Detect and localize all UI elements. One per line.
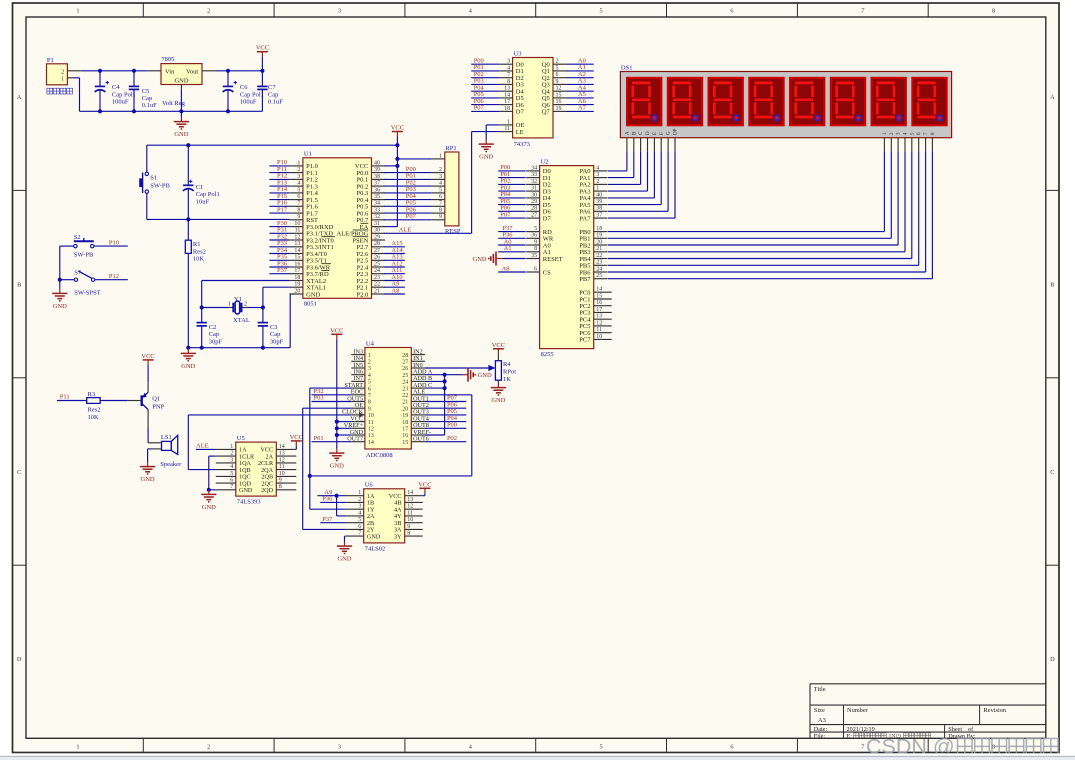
- wire reset node to RST pin: [147, 218, 290, 220]
- net label P05 wire U1 to RP1: [384, 200, 431, 207]
- svg-text:8255: 8255: [541, 351, 554, 358]
- svg-text:SW-PB: SW-PB: [74, 252, 94, 259]
- wire VCC to U4 VCC and VREF+: [337, 339, 352, 448]
- svg-text:S7: S7: [74, 269, 82, 276]
- net label P02 wire U1 to RP1: [384, 179, 431, 186]
- net label A15 wire: [384, 240, 405, 247]
- svg-text:P03: P03: [314, 395, 324, 402]
- wire U2 PB4 to DS1 digit 5: [608, 151, 912, 258]
- svg-text:5: 5: [297, 187, 300, 193]
- svg-text:R3: R3: [88, 391, 96, 398]
- resistor R1 Res2 10K: [185, 219, 206, 347]
- wire EA to VCC: [384, 145, 397, 226]
- svg-text:5: 5: [368, 380, 371, 386]
- resistor R3 Res2 10K: [87, 391, 141, 421]
- wire U2 PA2 to DS1 segment C: [608, 151, 641, 184]
- svg-text:100uF: 100uF: [112, 99, 129, 106]
- capacitor C7: [257, 71, 283, 112]
- svg-text:Cap Pol1: Cap Pol1: [240, 91, 264, 98]
- svg-text:23: 23: [402, 386, 408, 392]
- net label A2 wire out of U3: [567, 71, 594, 78]
- connector P1: [47, 57, 82, 85]
- svg-text:7: 7: [861, 8, 864, 15]
- svg-text:GND: GND: [141, 476, 155, 483]
- svg-text:A8: A8: [502, 265, 510, 272]
- svg-text:C3: C3: [270, 324, 278, 331]
- power VCC symbol top right of regulator: [256, 45, 269, 71]
- svg-text:SW-SPST: SW-SPST: [74, 290, 100, 297]
- capacitor C1 Cap Pol1 10uF: [183, 145, 220, 219]
- svg-text:D: D: [646, 131, 651, 135]
- speaker LS1: [148, 434, 182, 468]
- svg-text:15: 15: [556, 92, 562, 98]
- svg-text:20: 20: [402, 406, 408, 412]
- svg-text:Q1: Q1: [152, 395, 160, 402]
- svg-text:8: 8: [534, 246, 537, 252]
- junction dot START/ALE: [308, 474, 312, 478]
- svg-text:8: 8: [279, 484, 282, 490]
- svg-text:S2: S2: [74, 234, 81, 241]
- svg-text:P37: P37: [322, 516, 333, 523]
- svg-text:2: 2: [439, 167, 442, 173]
- svg-text:10K: 10K: [193, 256, 205, 263]
- svg-text:25: 25: [374, 261, 380, 267]
- svg-text:E:: E:: [847, 733, 853, 740]
- svg-text:7: 7: [861, 743, 864, 750]
- wire U2 PB6 to DS1 digit 7: [608, 151, 926, 272]
- net label P30 wire: [269, 220, 289, 227]
- svg-text:2: 2: [244, 301, 247, 308]
- svg-text:8: 8: [507, 79, 510, 85]
- net label P11 wire: [57, 394, 87, 401]
- svg-text:DS1: DS1: [621, 65, 633, 72]
- svg-text:GND: GND: [337, 556, 351, 563]
- svg-text:RP1: RP1: [445, 145, 456, 152]
- svg-text:GND: GND: [330, 463, 344, 470]
- svg-text:26: 26: [402, 366, 408, 372]
- net label P03 wire into U3: [471, 78, 499, 85]
- svg-text:7: 7: [368, 393, 371, 399]
- svg-text:15: 15: [402, 440, 408, 446]
- svg-text:12: 12: [368, 427, 374, 433]
- svg-text:6: 6: [297, 194, 300, 200]
- svg-text:A: A: [17, 94, 22, 101]
- IC U4 ADC0808: [342, 340, 433, 459]
- power VCC symbol left of U4: [330, 327, 343, 339]
- svg-text:E: E: [653, 132, 658, 135]
- svg-text:30: 30: [374, 228, 380, 234]
- svg-text:S1: S1: [150, 174, 157, 181]
- svg-text:17: 17: [596, 307, 602, 313]
- svg-text:Number: Number: [847, 707, 869, 714]
- svg-text:18: 18: [402, 420, 408, 426]
- svg-text:P00: P00: [447, 422, 457, 429]
- net label P06 wire into U2: [498, 205, 525, 212]
- svg-text:Vin: Vin: [165, 69, 175, 76]
- svg-text:21: 21: [402, 400, 408, 406]
- svg-text:Size: Size: [814, 707, 825, 714]
- svg-text:PA7: PA7: [580, 215, 592, 222]
- net label A1 wire to U2: [498, 245, 525, 252]
- svg-text:11: 11: [596, 327, 602, 333]
- svg-text:GND: GND: [174, 78, 188, 85]
- svg-text:ALE: ALE: [399, 227, 412, 234]
- svg-text:14: 14: [407, 490, 413, 496]
- svg-text:GND: GND: [181, 363, 195, 370]
- svg-text:22: 22: [596, 253, 602, 259]
- net label P07 wire U1 to RP1: [384, 213, 431, 220]
- power VCC symbol at U5 pin14: [290, 434, 303, 450]
- wire U2 PA7 to DS1 segment DP: [608, 151, 675, 218]
- svg-text:74LS02: 74LS02: [365, 545, 386, 552]
- svg-text:32: 32: [531, 179, 537, 185]
- svg-text:U4: U4: [366, 340, 375, 347]
- svg-text:2: 2: [358, 497, 361, 503]
- svg-text:Date:: Date:: [814, 726, 828, 733]
- svg-text:U6: U6: [365, 482, 374, 489]
- svg-text:P2.0: P2.0: [357, 291, 369, 298]
- svg-text:14: 14: [596, 287, 602, 293]
- net label P35 wire: [269, 254, 289, 261]
- capacitor C5: [129, 71, 157, 112]
- svg-text:C7: C7: [268, 84, 276, 91]
- svg-text:U2: U2: [541, 158, 549, 165]
- push button S1 SW-PB: [139, 145, 170, 219]
- svg-text:VCC: VCC: [330, 327, 343, 334]
- net label P16 wire: [269, 200, 289, 207]
- svg-text:38: 38: [374, 174, 380, 180]
- svg-text:31: 31: [531, 186, 537, 192]
- net label ALE wire U1 pin30 to 74373 LE: [384, 132, 499, 234]
- net label A0 wire out of U3: [567, 58, 594, 65]
- svg-text:GND: GND: [306, 291, 320, 298]
- svg-text:PB7: PB7: [579, 276, 591, 283]
- svg-text:U3: U3: [514, 50, 522, 57]
- svg-text:74LS393: 74LS393: [237, 499, 261, 506]
- wire U2 PA5 to DS1 segment F: [608, 151, 662, 204]
- svg-text:3: 3: [230, 457, 233, 463]
- wire U2 PA3 to DS1 segment D: [608, 151, 648, 191]
- svg-text:6: 6: [368, 386, 371, 392]
- svg-text:17: 17: [504, 99, 510, 105]
- net label P03 wire to U4 OUT5: [312, 395, 352, 402]
- svg-text:A: A: [625, 131, 630, 135]
- wire P1 pin2 to 7805 Vin: [81, 70, 148, 72]
- IC U3 74373 latch: [499, 50, 566, 148]
- svg-text:10: 10: [294, 221, 300, 227]
- svg-text:P11: P11: [60, 394, 70, 401]
- net label P36 wire to U2 WR: [498, 232, 525, 239]
- svg-text:17: 17: [294, 268, 300, 274]
- svg-text:5: 5: [600, 743, 603, 750]
- svg-text:P07: P07: [406, 213, 417, 220]
- wire U1 VCC pin to column: [384, 165, 397, 167]
- junction dot S2/S7 ground branch: [58, 278, 62, 282]
- svg-text:2: 2: [207, 8, 210, 15]
- svg-text:30pF: 30pF: [209, 338, 223, 345]
- junction dots reset: [186, 143, 190, 221]
- svg-text:1: 1: [76, 743, 79, 750]
- svg-text:14: 14: [504, 92, 510, 98]
- svg-text:D7: D7: [543, 215, 552, 222]
- wire U2 PA0 to DS1 segment A: [608, 151, 627, 171]
- svg-text:C5: C5: [142, 88, 150, 95]
- net label A1 wire out of U3: [567, 64, 594, 71]
- svg-text:Res2: Res2: [193, 248, 206, 255]
- wire XTAL2 to crystal: [202, 281, 290, 308]
- net label A14 wire: [384, 247, 405, 254]
- wire U4 ADD A/B/C and VREF- to ground: [425, 375, 462, 435]
- svg-text:PNP: PNP: [152, 404, 164, 411]
- svg-text:3: 3: [358, 504, 361, 510]
- svg-text:11: 11: [279, 464, 285, 470]
- svg-text:8: 8: [992, 8, 995, 15]
- svg-text:4: 4: [358, 510, 361, 516]
- svg-text:D: D: [1050, 656, 1055, 663]
- svg-text:6: 6: [358, 524, 361, 530]
- net label A0 wire to U2: [498, 238, 525, 245]
- svg-text:3: 3: [338, 743, 341, 750]
- net label P04 wire from U4: [425, 415, 466, 422]
- svg-text:R1: R1: [193, 241, 201, 248]
- svg-text:19: 19: [402, 413, 408, 419]
- svg-text:39: 39: [596, 199, 602, 205]
- wire Q1 collector to speaker: [147, 428, 149, 443]
- net label A10 wire: [384, 274, 405, 281]
- svg-text:100uF: 100uF: [240, 99, 257, 106]
- net label P04 wire into U2: [498, 191, 525, 198]
- svg-text:11: 11: [368, 420, 374, 426]
- svg-text:8051: 8051: [304, 300, 317, 307]
- svg-text:GND: GND: [491, 397, 505, 404]
- svg-text:Revision: Revision: [983, 707, 1007, 714]
- svg-text:28: 28: [402, 353, 408, 359]
- svg-text:C1: C1: [196, 184, 204, 191]
- svg-text:6: 6: [730, 743, 733, 750]
- svg-text:1: 1: [439, 153, 442, 159]
- net label P05 wire into U3: [471, 91, 499, 98]
- svg-text:27: 27: [402, 360, 408, 366]
- svg-text:25: 25: [596, 273, 602, 279]
- svg-text:13: 13: [368, 433, 374, 439]
- ground symbol below U4: [329, 449, 344, 470]
- net label A8 wire to U2 CS: [498, 265, 525, 272]
- net label A9 wire: [384, 281, 405, 288]
- wire 8051 GND pin down to rail: [290, 294, 295, 348]
- svg-text:VCC: VCC: [141, 353, 154, 360]
- net label P02 wire into U2: [498, 178, 525, 185]
- svg-text:LE: LE: [516, 129, 524, 136]
- net label P37 wire to U2 RD: [498, 225, 525, 232]
- svg-text:8: 8: [297, 208, 300, 214]
- svg-text:A8: A8: [391, 287, 399, 294]
- svg-text:GND: GND: [479, 154, 493, 161]
- junction dots power rails: [98, 69, 265, 114]
- svg-text:9: 9: [534, 239, 537, 245]
- svg-text:P07: P07: [500, 211, 511, 218]
- svg-text:37: 37: [374, 181, 380, 187]
- svg-text:16: 16: [556, 99, 562, 105]
- svg-text:38: 38: [596, 206, 602, 212]
- net label A3 wire out of U3: [567, 78, 594, 85]
- voltage regulator 7805: [148, 56, 216, 107]
- svg-text:14: 14: [279, 444, 285, 450]
- svg-text:1: 1: [596, 186, 599, 192]
- svg-text:VCC: VCC: [256, 45, 269, 52]
- net label P00 wire U1 to RP1: [384, 166, 431, 173]
- wire U4 CLOCK to U5 1QB: [188, 415, 351, 470]
- net label ALE wire to U5 1A: [196, 443, 216, 450]
- svg-text:31: 31: [374, 221, 380, 227]
- svg-text:P07: P07: [474, 105, 485, 112]
- display DS1 8-digit 7-segment: [620, 65, 951, 152]
- svg-text:RESET: RESET: [543, 256, 563, 263]
- wire 7805 Vout to VCC: [216, 70, 263, 72]
- ground symbol below xtal rail: [181, 349, 196, 370]
- svg-text:14: 14: [294, 248, 300, 254]
- net label P31 wire: [269, 227, 289, 234]
- net label P00 wire into U3: [471, 58, 499, 65]
- svg-text:C2: C2: [209, 324, 217, 331]
- svg-text:12: 12: [294, 234, 300, 240]
- net label A13 wire: [384, 254, 405, 261]
- ground symbol below U6: [337, 542, 352, 563]
- svg-text:VCC: VCC: [290, 434, 303, 441]
- svg-text:RPot: RPot: [503, 369, 516, 376]
- svg-text:1: 1: [76, 8, 79, 15]
- svg-text:5: 5: [230, 471, 233, 477]
- junction dots U4 power: [335, 420, 339, 438]
- svg-text:2: 2: [61, 68, 64, 75]
- wire 7805 GND to rail: [180, 91, 182, 111]
- svg-text:33: 33: [531, 172, 537, 178]
- net label P01 wire U1 to RP1: [384, 173, 431, 180]
- svg-text:7: 7: [358, 531, 361, 537]
- wire U2 PB0 to DS1 digit 1: [608, 151, 885, 231]
- svg-text:37: 37: [596, 213, 602, 219]
- svg-text:4: 4: [596, 165, 599, 171]
- svg-text:21: 21: [596, 246, 602, 252]
- svg-text:A7: A7: [578, 105, 587, 112]
- svg-text:9: 9: [297, 214, 300, 220]
- svg-text:3Y: 3Y: [394, 533, 402, 540]
- svg-text:P02: P02: [447, 435, 457, 442]
- net label P15 wire: [269, 193, 289, 200]
- net label A5 wire out of U3: [567, 91, 594, 98]
- IC U1 8051 microcontroller: [289, 151, 385, 308]
- switch S7 SW-SPST to P12: [74, 269, 101, 296]
- power VCC symbol above Q1: [141, 353, 154, 382]
- svg-text:GND: GND: [202, 504, 216, 511]
- svg-text:ALE: ALE: [196, 443, 209, 450]
- svg-text:24: 24: [596, 266, 602, 272]
- wire U6 GND pin to ground: [345, 536, 346, 541]
- ground symbol below R4: [491, 383, 506, 404]
- svg-text:30: 30: [531, 192, 537, 198]
- power VCC symbol above R4: [492, 342, 505, 354]
- svg-text:1: 1: [297, 160, 300, 166]
- net label P14 wire: [269, 186, 289, 193]
- svg-text:21: 21: [374, 288, 380, 294]
- svg-text:5: 5: [439, 187, 442, 193]
- svg-text:1: 1: [228, 301, 231, 308]
- wire S7 left to ground: [60, 280, 74, 289]
- svg-text:Cap: Cap: [270, 331, 280, 338]
- svg-text:8: 8: [407, 531, 410, 537]
- svg-text:10: 10: [279, 471, 285, 477]
- svg-text:32: 32: [374, 214, 380, 220]
- net label P12 wire: [269, 173, 289, 180]
- svg-text:19: 19: [596, 233, 602, 239]
- svg-text:18: 18: [294, 275, 300, 281]
- svg-text:GND: GND: [473, 256, 487, 263]
- svg-text:23: 23: [374, 275, 380, 281]
- svg-text:File:: File:: [814, 733, 826, 740]
- net label A6 wire out of U3: [567, 98, 594, 105]
- net label A7 wire out of U3: [567, 105, 594, 112]
- svg-text:Cap Pol1: Cap Pol1: [112, 91, 136, 98]
- ground symbol below speaker: [140, 462, 155, 483]
- svg-text:5: 5: [556, 65, 559, 71]
- svg-text:5: 5: [600, 8, 603, 15]
- svg-text:U5: U5: [237, 435, 245, 442]
- svg-text:13: 13: [407, 497, 413, 503]
- svg-text:2: 2: [297, 167, 300, 173]
- svg-text:20: 20: [596, 239, 602, 245]
- net label P01 wire into U2: [498, 171, 525, 178]
- svg-text:29: 29: [374, 234, 380, 240]
- svg-text:17: 17: [402, 427, 408, 433]
- net label P05 wire into U2: [498, 198, 525, 205]
- net label P07 wire from U4: [425, 395, 466, 402]
- junction dots ADD lines: [443, 373, 447, 391]
- svg-text:15: 15: [294, 255, 300, 261]
- resistor pack RP1 RESP: [431, 145, 461, 235]
- svg-text:34: 34: [374, 201, 380, 207]
- svg-text:9: 9: [368, 406, 371, 412]
- wire VCC rail to reset circuit: [147, 144, 398, 146]
- svg-text:39: 39: [374, 167, 380, 173]
- svg-text:2: 2: [556, 59, 559, 65]
- svg-text:16: 16: [402, 433, 408, 439]
- svg-text:2: 2: [207, 743, 210, 750]
- wire U2 PA1 to DS1 segment B: [608, 151, 634, 177]
- svg-text:GND: GND: [53, 303, 67, 310]
- svg-text:10K: 10K: [88, 414, 100, 421]
- svg-text:28: 28: [531, 206, 537, 212]
- svg-text:1: 1: [61, 75, 64, 82]
- svg-text:Cap: Cap: [209, 331, 219, 338]
- svg-text:22: 22: [374, 282, 380, 288]
- net label P10 wire: [94, 239, 128, 246]
- svg-text:9: 9: [556, 79, 559, 85]
- svg-text:0.1uF: 0.1uF: [142, 102, 157, 109]
- net label A9 wire to U6 1A and 2A: [317, 489, 345, 516]
- svg-text:Y1: Y1: [234, 296, 242, 303]
- svg-text:27: 27: [374, 248, 380, 254]
- wire U2 PB5 to DS1 digit 6: [608, 151, 919, 265]
- wire U4 START / ALE to U6 1Y: [310, 388, 472, 509]
- wire U4 ALE branch: [425, 394, 472, 396]
- wire speaker to ground: [148, 449, 151, 462]
- svg-text:P37: P37: [277, 267, 288, 274]
- svg-text:Cap Pol1: Cap Pol1: [196, 191, 220, 198]
- wire S2 left to ground branch: [60, 246, 74, 280]
- power VCC symbol at U6 pin14: [418, 481, 431, 495]
- wire XTAL1 to crystal: [263, 287, 290, 307]
- svg-text:PC7: PC7: [579, 337, 591, 344]
- net label P00 wire from U4: [425, 422, 466, 429]
